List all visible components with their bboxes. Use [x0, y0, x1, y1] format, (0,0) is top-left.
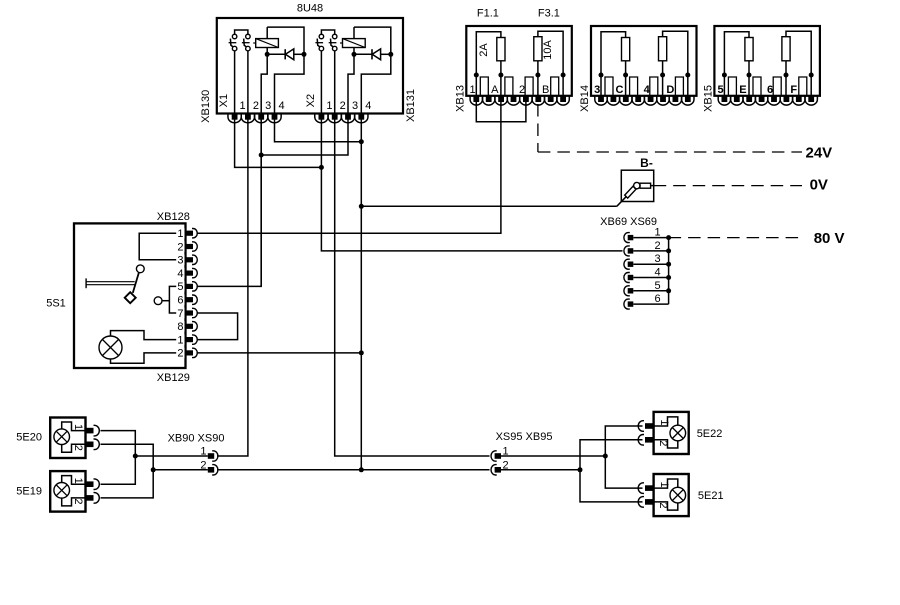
terminal XB15 F — [799, 77, 807, 96]
pin label 3 — [177, 255, 183, 267]
wire XB14 pin 1 down — [600, 75, 602, 96]
wire X2 coil+ to pin 4 — [361, 54, 391, 113]
wire B- to 0V (dashed) — [654, 185, 802, 187]
svg-text:XB13: XB13 — [454, 85, 466, 112]
pin labels 5E22 1 2 — [657, 419, 670, 446]
connector XS95/XB95 pin 2 — [491, 465, 501, 475]
svg-text:5: 5 — [177, 281, 183, 293]
svg-text:5: 5 — [718, 84, 724, 96]
lamp unit 5E20 box — [50, 418, 85, 459]
wire XB15 loop 2 — [786, 31, 811, 75]
connector XB128/XB129 pin 6 — [176, 294, 197, 305]
pin label XB69 3 — [654, 253, 660, 265]
wire XB14 loop 2 — [663, 31, 688, 75]
svg-text:5E19: 5E19 — [16, 485, 42, 497]
wire X1 coil top bracket — [267, 27, 304, 52]
wire X1 contact a to pin 1 — [234, 51, 236, 114]
svg-text:6: 6 — [177, 295, 183, 307]
wire XB13 pin 1 down — [475, 75, 477, 96]
svg-text:6: 6 — [767, 84, 773, 96]
node XB15 pin 4 — [809, 73, 814, 78]
wire XB15 fuse 2 to node — [785, 61, 787, 75]
label XS95 XB95 — [496, 431, 553, 443]
connector XS95/XB95 pin 1 — [491, 451, 501, 461]
svg-text:1: 1 — [658, 482, 670, 488]
wire 5E20 lamp to pin 2 — [62, 444, 86, 452]
wire XB15 pin 4 down — [810, 75, 812, 96]
svg-text:4: 4 — [278, 100, 284, 112]
pin labels XB15 5 E 6 F — [718, 84, 798, 96]
diode VX2 — [354, 49, 391, 60]
lamp 5E19 — [54, 483, 70, 499]
svg-text:10A: 10A — [542, 40, 554, 60]
svg-text:1: 1 — [658, 419, 670, 425]
svg-text:2: 2 — [340, 100, 346, 112]
connector XB90/XS90 pin 2 — [208, 465, 218, 475]
connector XB128/XB129 pin 7 — [176, 308, 197, 319]
lamp 5E21 — [670, 487, 686, 503]
net label 80 V — [814, 230, 845, 247]
svg-text:24V: 24V — [806, 144, 833, 161]
pin label 8 — [177, 321, 183, 333]
wire XB13 pin B to 24V (dashed) — [538, 104, 802, 152]
pin label XB69 2 — [654, 240, 660, 252]
pin label XB69 1 — [654, 227, 660, 239]
label F3.1 — [538, 8, 560, 20]
svg-text:4: 4 — [644, 84, 651, 96]
switch contact 5S1 — [125, 265, 145, 303]
svg-text:2: 2 — [177, 348, 183, 360]
wire X1 pin2 to XS90 pin1 — [217, 119, 248, 456]
wire 5S1 pin1-pin3 bracket — [139, 233, 186, 260]
fuse box XB14 — [591, 26, 697, 96]
node left lamps pin1 tap — [133, 454, 138, 459]
svg-text:XB131: XB131 — [405, 89, 417, 122]
svg-text:1: 1 — [469, 84, 475, 96]
label XB15 — [702, 85, 714, 112]
svg-text:3: 3 — [352, 100, 358, 112]
wire XB13 pin 3 down — [537, 75, 539, 96]
wire X2 pin4 down — [360, 119, 362, 470]
wire XB13 pin 2 down — [500, 75, 502, 96]
connector XB69/XS69 pin 5 — [624, 286, 633, 296]
label 5E21 — [698, 490, 724, 502]
node XB15 pin 2 — [747, 73, 752, 78]
terminal XB15 6 — [773, 77, 781, 96]
wire 5E20 pin2 to 5E19 pin2 — [101, 444, 154, 498]
node X1 coil+ — [302, 52, 307, 57]
svg-text:3: 3 — [654, 253, 660, 265]
node X2 coil- — [352, 52, 357, 57]
node X2.4 to B- junction — [359, 204, 364, 209]
wire XB13 loop 2 — [538, 31, 563, 75]
node XB13 pin 1 — [474, 73, 479, 78]
connector XB69/XS69 pin 3 — [624, 259, 633, 269]
wire X1 contact top bracket — [235, 30, 248, 34]
svg-text:4: 4 — [654, 267, 660, 279]
node XB14 pin 3 — [660, 73, 665, 78]
battery terminal B- symbol — [625, 182, 654, 198]
pin label XB90 2 — [200, 459, 206, 471]
wire XB14 fuse 1 to node — [625, 61, 627, 75]
pin labels 5E21 1 2 — [657, 482, 670, 509]
connector XB128/XB129 pin 2 — [176, 241, 197, 252]
label 5E19 — [16, 485, 42, 497]
wire XB13 pin A to XB128 pin 1 — [197, 102, 501, 234]
svg-text:8U48: 8U48 — [297, 3, 323, 15]
node XB69 bus junction — [666, 262, 671, 267]
fuse box XB13 — [466, 26, 572, 96]
connector 5E22 pin 2 — [638, 435, 653, 446]
wire XB15 pin 3 down — [785, 75, 787, 96]
relay box 8U48 — [217, 18, 403, 114]
connector XB69/XS69 pin 2 — [624, 246, 633, 256]
svg-text:XB69 XS69: XB69 XS69 — [600, 216, 657, 228]
label 5S1 — [46, 298, 66, 310]
relay X1 contact a — [229, 34, 237, 51]
label X2 — [305, 94, 317, 107]
label 10A — [542, 40, 554, 60]
wire XB14 pin 3 down — [662, 75, 664, 96]
terminal XB14 3 — [605, 77, 613, 96]
svg-text:2: 2 — [657, 502, 669, 508]
wire 5S1 pin5-pin7 bracket — [169, 286, 186, 313]
wire X2 coil- to pin 3 — [348, 54, 354, 113]
node XB15 pin 3 — [784, 73, 789, 78]
fuse XB14 — [622, 38, 630, 61]
pin label XS95 2 — [503, 459, 509, 471]
connector XB128/XB129 pin 3 — [176, 255, 197, 266]
svg-text:1: 1 — [200, 446, 206, 458]
wire XB15 pin 2 down — [748, 75, 750, 96]
wire X2 contact b to pin 2 — [334, 51, 336, 114]
switch contact 5S1 aux — [154, 297, 169, 305]
relay X2 contact b — [329, 34, 337, 51]
label F1.1 — [477, 8, 499, 20]
connector XB14 pins — [595, 96, 694, 105]
wire XB69 pin 2 to bus — [633, 250, 668, 252]
wire XB14 pin 4 down — [687, 75, 689, 96]
node X1.1-X2.1 junction — [319, 165, 324, 170]
node XB13 pin 3 — [535, 73, 540, 78]
connector XB13 pins — [470, 96, 569, 105]
label XB13 — [454, 85, 466, 112]
svg-text:3: 3 — [265, 100, 271, 112]
svg-text:2: 2 — [200, 459, 206, 471]
svg-text:5E20: 5E20 — [16, 432, 42, 444]
connector 5E20 pin 1 — [86, 425, 100, 436]
wire X1 coil bottom — [266, 48, 268, 55]
wire 5E22 pin1 to 5E21 pin1 — [605, 426, 642, 488]
svg-text:A: A — [491, 84, 499, 96]
svg-text:2: 2 — [654, 240, 660, 252]
svg-text:XB130: XB130 — [200, 90, 212, 123]
node X1 coil- — [265, 52, 270, 57]
label XB130 — [200, 90, 212, 123]
terminal XB15 E — [753, 77, 761, 96]
pin label 4 — [177, 268, 183, 280]
connector XB69/XS69 pin 6 — [624, 299, 633, 309]
node XB69 bus junction — [666, 248, 671, 253]
connector 5E22 pin 1 — [638, 421, 653, 432]
node X2.4 to lamps junction — [359, 467, 364, 472]
wire XB69 pin 6 to bus — [633, 303, 668, 305]
svg-text:XB128: XB128 — [157, 211, 190, 223]
svg-text:5E21: 5E21 — [698, 490, 724, 502]
svg-text:XB15: XB15 — [702, 85, 714, 112]
svg-text:XB14: XB14 — [579, 85, 591, 112]
svg-text:2: 2 — [177, 241, 183, 253]
node XB14 pin 4 — [685, 73, 690, 78]
pin label XB69 4 — [654, 267, 660, 279]
connector 5E19 pin 1 — [86, 479, 100, 490]
wire X2 coil bottom — [353, 48, 355, 55]
svg-text:XB90 XS90: XB90 XS90 — [168, 432, 225, 444]
svg-text:1: 1 — [177, 334, 183, 346]
fuse XB14 — [659, 37, 667, 61]
svg-text:D: D — [666, 84, 674, 96]
wire jumper XB13 pin 1 to pin 2 — [476, 102, 526, 122]
svg-text:2: 2 — [657, 440, 669, 446]
connector 5E19 pin 2 — [86, 493, 100, 504]
lamp 5S1 — [99, 336, 122, 359]
wire XB15 pin 1 down — [723, 75, 725, 96]
wire X1 pin3 down — [260, 119, 262, 286]
label 8U48 — [297, 3, 323, 15]
terminal XB13 1 — [480, 77, 488, 96]
svg-text:2: 2 — [72, 445, 84, 451]
wire 5E22 lamp to pin 1 — [654, 417, 678, 426]
net label 0V — [810, 177, 828, 194]
wire XB13 fuse 2 to node — [537, 61, 539, 75]
wire XB69 bus — [668, 238, 670, 305]
connector XB69/XS69 pin 4 — [624, 273, 633, 283]
wire 5E20 pin1 to 5E19 pin1 — [101, 431, 136, 485]
svg-text:F: F — [790, 84, 797, 96]
wire XB69 pin 1 to bus — [633, 237, 668, 239]
connector XB128/XB129 pin 1 — [176, 334, 197, 345]
wire XB13 pin 4 down — [562, 75, 564, 96]
svg-text:2: 2 — [253, 100, 259, 112]
pin label XB69 5 — [654, 280, 660, 292]
wire XB14 fuse 2 to node — [662, 61, 664, 75]
svg-text:1: 1 — [72, 424, 84, 430]
fuse box XB15 — [714, 26, 820, 96]
wire X2 contact top bracket — [321, 30, 334, 34]
svg-text:B: B — [542, 84, 549, 96]
node X1.3-X2.3 junction — [259, 153, 264, 158]
pin label 2 — [177, 241, 183, 253]
wire XB14 pin 2 down — [625, 75, 627, 96]
svg-text:4: 4 — [177, 268, 183, 280]
terminal XB13 A — [505, 77, 513, 96]
relay X1 contact b — [242, 34, 250, 51]
node X2.4 to XB129.2 junction — [359, 350, 364, 355]
pin labels X2 1 2 3 4 — [326, 100, 371, 112]
wire XB69 to 80V (dashed) — [669, 237, 805, 239]
wire X1 coil- to pin 3 — [261, 54, 267, 113]
battery terminal B- box — [621, 170, 653, 201]
wire X1 contact b to pin 2 — [247, 51, 249, 114]
wire XB128 pin7 to XB129 pin1 — [197, 313, 238, 340]
wire XB95 pin1 to right lamps — [501, 455, 605, 457]
svg-text:B-: B- — [640, 156, 653, 170]
connector 5E21 pin 1 — [638, 483, 653, 494]
wire X2 pin1 to XB69 pin2 — [321, 119, 622, 251]
connector XB128/XB129 pin 5 — [176, 281, 197, 292]
svg-text:C: C — [616, 84, 624, 96]
svg-text:1: 1 — [240, 100, 246, 112]
connector XB90/XS90 pin 1 — [208, 451, 218, 461]
pin label XB90 1 — [200, 446, 206, 458]
node XB14 pin 2 — [623, 73, 628, 78]
node right lamps pin1 tap — [603, 454, 608, 459]
pin labels XB14 3 C 4 D — [594, 84, 674, 96]
svg-text:E: E — [739, 84, 746, 96]
connector XB69/XS69 pin 1 — [624, 233, 633, 243]
svg-text:5: 5 — [654, 280, 660, 292]
node XB13 pin 4 — [561, 73, 566, 78]
svg-text:F1.1: F1.1 — [477, 8, 499, 20]
wire XB95 pin2 to right lamps — [501, 469, 580, 471]
svg-text:0V: 0V — [810, 177, 828, 194]
wire left lamps to XB90 pin2 — [153, 469, 208, 471]
wire XB15 fuse 1 to node — [748, 61, 750, 75]
wire X2 contact a to pin 1 — [320, 51, 322, 114]
pin labels XB13 1 A 2 B — [469, 84, 549, 96]
fuse XB13 2A — [497, 38, 505, 61]
wire 5E21 lamp to pin 1 — [654, 479, 678, 488]
pin label 1 — [177, 334, 183, 346]
node X2 coil+ — [388, 52, 393, 57]
node XB13 pin 2 — [498, 73, 503, 78]
svg-text:2: 2 — [519, 84, 525, 96]
svg-text:X2: X2 — [305, 94, 317, 107]
relay X2 contact a — [315, 34, 323, 51]
connector XB128/XB129 pin 1 — [176, 228, 197, 239]
wire XB14 loop 1 — [601, 32, 626, 75]
svg-text:3: 3 — [177, 255, 183, 267]
svg-text:8: 8 — [177, 321, 183, 333]
diode VX1 — [267, 49, 304, 60]
svg-text:4: 4 — [365, 100, 371, 112]
svg-text:1: 1 — [326, 100, 332, 112]
relay X1 coil — [253, 39, 278, 48]
connector X1 pins — [228, 114, 281, 123]
wire X2 pin2 to XS95 pin1 — [335, 119, 490, 456]
terminal XB13 2 — [525, 77, 533, 96]
lamp 5E20 — [54, 429, 70, 445]
svg-text:6: 6 — [654, 293, 660, 305]
relay X2 coil — [340, 39, 365, 48]
fuse XB13 10A — [534, 37, 542, 61]
pin label 5 — [177, 281, 183, 293]
wire 5E20 lamp to pin 1 — [62, 422, 86, 431]
node XB69 bus junction — [666, 288, 671, 293]
svg-text:1: 1 — [654, 227, 660, 239]
label XB129 — [157, 372, 190, 384]
node XB15 pin 1 — [722, 73, 727, 78]
connector XB15 pins — [718, 96, 817, 105]
connector XB128/XB129 pin 4 — [176, 268, 197, 279]
wire XB69 pin 3 to bus — [633, 263, 668, 265]
pin label 2 — [177, 348, 183, 360]
label 2A — [478, 43, 490, 57]
wire 5S1 lamp to XB129 pin2 — [111, 353, 187, 363]
wire X1 pin1 to X2 pin1 — [235, 119, 322, 167]
svg-text:3: 3 — [594, 84, 600, 96]
terminal XB15 5 — [728, 77, 736, 96]
wire XB15 loop 1 — [724, 32, 749, 75]
wire XB13 loop 1 — [476, 32, 501, 75]
svg-text:2: 2 — [72, 498, 84, 504]
terminal XB14 C — [630, 77, 638, 96]
svg-text:XB129: XB129 — [157, 372, 190, 384]
svg-text:5E22: 5E22 — [697, 428, 723, 440]
node XB69 bus junction — [666, 235, 671, 240]
terminal XB14 4 — [650, 77, 658, 96]
pin labels X1 1 2 3 4 — [240, 100, 285, 112]
svg-text:F3.1: F3.1 — [538, 8, 560, 20]
svg-text:2A: 2A — [478, 43, 490, 57]
svg-text:1: 1 — [72, 478, 84, 484]
wire 5S1 lamp to XB129 pin1 — [111, 331, 187, 340]
wire X2 pin3 to X1 pin3 — [261, 119, 348, 155]
connector 5E20 pin 2 — [86, 439, 100, 450]
wire 5E19 lamp to pin 1 — [62, 476, 86, 485]
terminal XB13 B — [551, 77, 559, 96]
lamp 5E22 — [670, 425, 686, 441]
net label 24V — [806, 144, 833, 161]
wire XB128 pin5 to X1 pin3 — [197, 119, 262, 286]
svg-text:XS95 XB95: XS95 XB95 — [496, 431, 553, 443]
fuse XB15 — [745, 38, 753, 61]
wire XS90 pin2 to XS95 pin2 — [217, 469, 489, 471]
label XB131 — [405, 89, 417, 122]
node XB69 bus junction — [666, 275, 671, 280]
wire 5E21 lamp to pin 2 — [654, 502, 678, 510]
wire 5E22 pin2 to 5E21 pin2 — [580, 440, 643, 502]
svg-text:1: 1 — [177, 228, 183, 240]
svg-text:5S1: 5S1 — [46, 298, 66, 310]
connector XB128/XB129 pin 8 — [176, 321, 197, 332]
node left lamps pin2 tap — [151, 467, 156, 472]
label X1 — [218, 94, 230, 107]
pin labels 5E19 1 2 — [72, 478, 84, 505]
pin label 1 — [177, 228, 183, 240]
wire XB69 pin 5 to bus — [633, 290, 668, 292]
svg-text:80 V: 80 V — [814, 230, 845, 247]
pin label XB69 6 — [654, 293, 660, 305]
wire X2 pin4 to B- — [361, 196, 626, 206]
node X1.4-X2.4 junction — [359, 139, 364, 144]
pin label 7 — [177, 308, 183, 320]
label 5E20 — [16, 432, 42, 444]
fuse XB15 — [782, 37, 790, 61]
node right lamps pin2 tap — [578, 467, 583, 472]
wire 5E19 lamp to pin 2 — [62, 498, 86, 506]
connector X2 pins — [315, 114, 368, 123]
connector XB128/XB129 pin 2 — [176, 348, 197, 359]
svg-text:7: 7 — [177, 308, 183, 320]
label XB90 XS90 — [168, 432, 225, 444]
wire XB69 pin 4 to bus — [633, 277, 668, 279]
wire 5E22 lamp to pin 2 — [654, 440, 678, 448]
lamp unit 5E19 box — [50, 471, 85, 512]
pin label XS95 1 — [503, 446, 509, 458]
wire XB13 fuse 1 to node — [500, 61, 502, 75]
label XB69 XS69 — [600, 216, 657, 228]
